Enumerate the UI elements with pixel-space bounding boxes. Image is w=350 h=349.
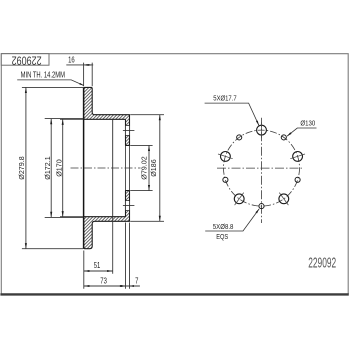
title box: [1, 54, 49, 65]
bolt hole dia17.7 #3: [234, 194, 244, 204]
dimension 16: [84, 63, 93, 87]
dimension dia172.1: [45, 119, 83, 218]
dimension 73: [126, 223, 130, 289]
frame border: [1, 54, 348, 294]
svg-text:Ø279.8: Ø279.8: [17, 156, 26, 179]
svg-text:229092: 229092: [12, 53, 42, 67]
svg-text:51: 51: [94, 262, 101, 270]
end view vertical centreline: [261, 118, 263, 223]
section bottom half (hatched): [84, 191, 130, 249]
frame bottom edge: [0, 293, 348, 295]
interior step edge: [112, 119, 114, 216]
bolt circle dia130 (dash-dot): [224, 130, 300, 206]
bolt hole dia17.7 #1: [257, 125, 267, 135]
friction ring left face edge: [83, 87, 85, 248]
end view horizontal centreline: [217, 167, 303, 169]
small hole dia8.8 #4: [259, 204, 264, 209]
dimension dia186: [130, 115, 164, 222]
svg-text:73: 73: [100, 278, 107, 286]
bolt hole slot top: [125, 125, 130, 135]
bolt hole dia17.7 #4: [279, 194, 289, 204]
dimension 51: [84, 217, 113, 289]
small hole dia8.8 #2: [237, 135, 242, 140]
section top half (hatched): [84, 87, 130, 145]
bolt hole centreline bottom: [123, 205, 134, 207]
bolt hole dia17.7 #5: [293, 152, 303, 162]
dimension dia170: [60, 119, 83, 216]
small hole dia8.8 #5: [295, 177, 300, 182]
svg-text:MIN TH. 14.2MM: MIN TH. 14.2MM: [21, 70, 65, 79]
svg-text:Ø186: Ø186: [149, 159, 158, 177]
dimension dia79.02: [130, 145, 152, 190]
svg-text:EQS: EQS: [216, 233, 228, 241]
svg-text:5XØ17.7: 5XØ17.7: [213, 95, 237, 103]
small hole dia8.8 #3: [223, 177, 228, 182]
svg-text:Ø79.02: Ø79.02: [139, 156, 148, 179]
svg-text:7: 7: [135, 278, 138, 286]
dimension dia279.8: [22, 87, 83, 248]
bolt hole slot bottom: [125, 201, 130, 211]
svg-text:16: 16: [68, 57, 75, 65]
centre bore edges: [126, 145, 130, 190]
bolt hole centreline top: [123, 129, 134, 131]
svg-text:229092: 229092: [308, 254, 336, 271]
dimension 7: [121, 285, 125, 287]
svg-text:Ø170: Ø170: [54, 159, 63, 177]
small hole dia8.8 #1: [281, 135, 286, 140]
svg-text:5XØ8.8: 5XØ8.8: [213, 223, 234, 231]
bolt hole dia17.7 #2: [221, 152, 231, 162]
section centreline: [71, 167, 141, 169]
svg-text:Ø172.1: Ø172.1: [43, 156, 52, 179]
svg-text:Ø130: Ø130: [300, 120, 315, 128]
